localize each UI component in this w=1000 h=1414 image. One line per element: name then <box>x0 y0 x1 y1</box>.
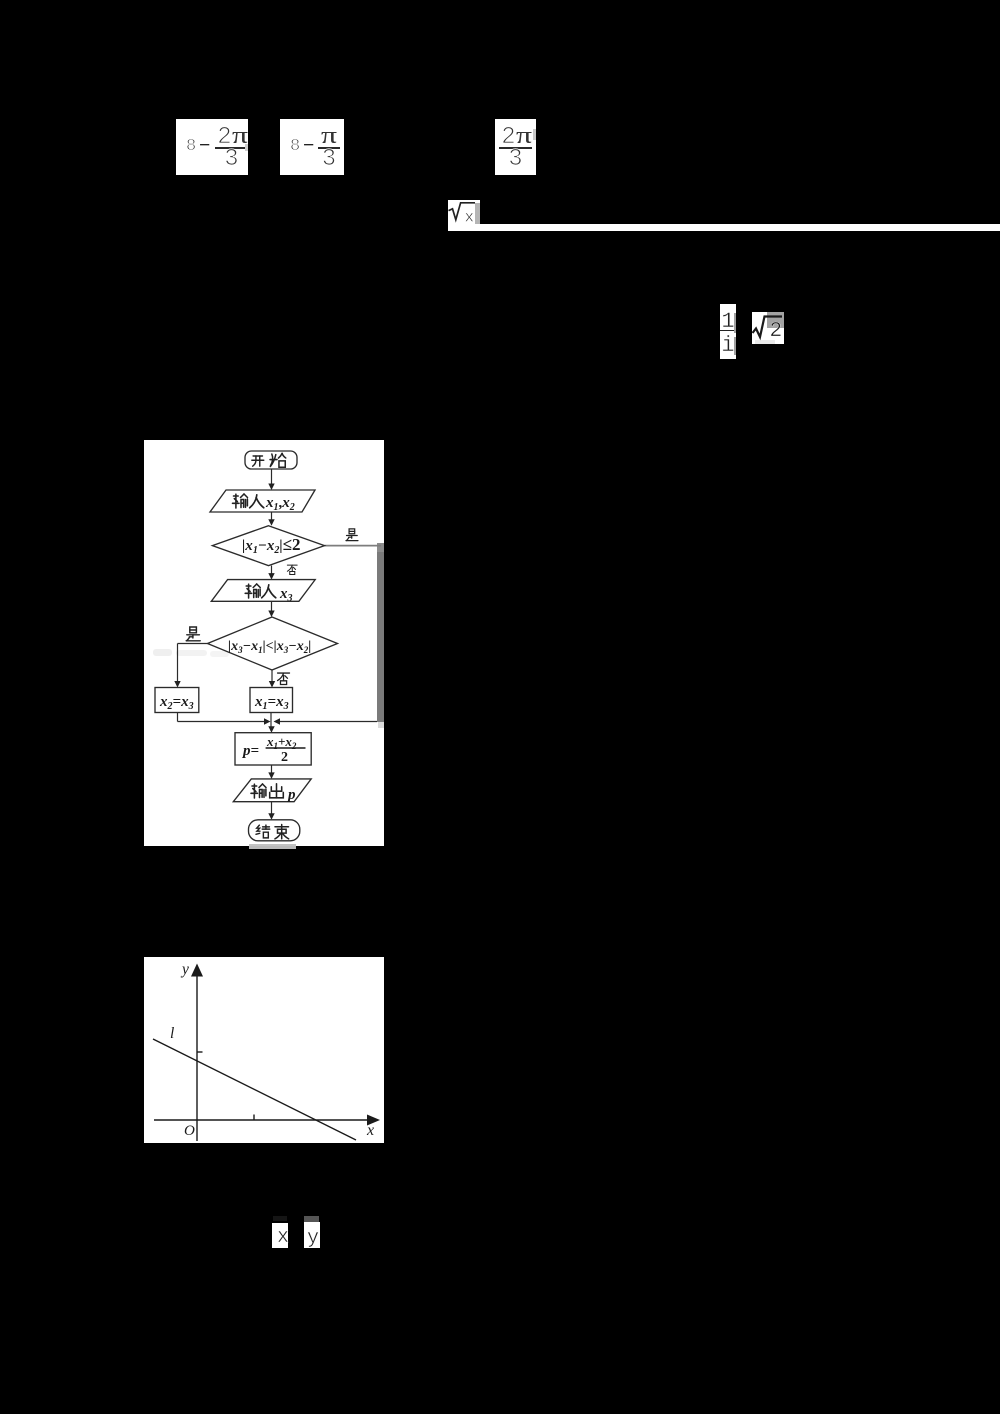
svg-text:p: p <box>286 787 296 803</box>
svg-text:x: x <box>366 1122 374 1139</box>
svg-text:p=: p= <box>241 743 259 759</box>
svg-text:y: y <box>180 961 189 978</box>
svg-text:|x3−x1|<|x3−x2|: |x3−x1|<|x3−x2| <box>228 639 311 655</box>
svg-text:x1,x2: x1,x2 <box>265 495 295 513</box>
svg-text:|x1−x2|≤2: |x1−x2|≤2 <box>242 535 301 556</box>
svg-text:l: l <box>170 1025 174 1042</box>
svg-text:2: 2 <box>281 750 288 765</box>
svg-text:x2=x3: x2=x3 <box>159 694 194 712</box>
svg-text:2: 2 <box>770 320 783 343</box>
svg-text:x1=x3: x1=x3 <box>254 694 289 712</box>
svg-text:x3: x3 <box>279 586 293 604</box>
svg-text:O: O <box>184 1123 195 1139</box>
